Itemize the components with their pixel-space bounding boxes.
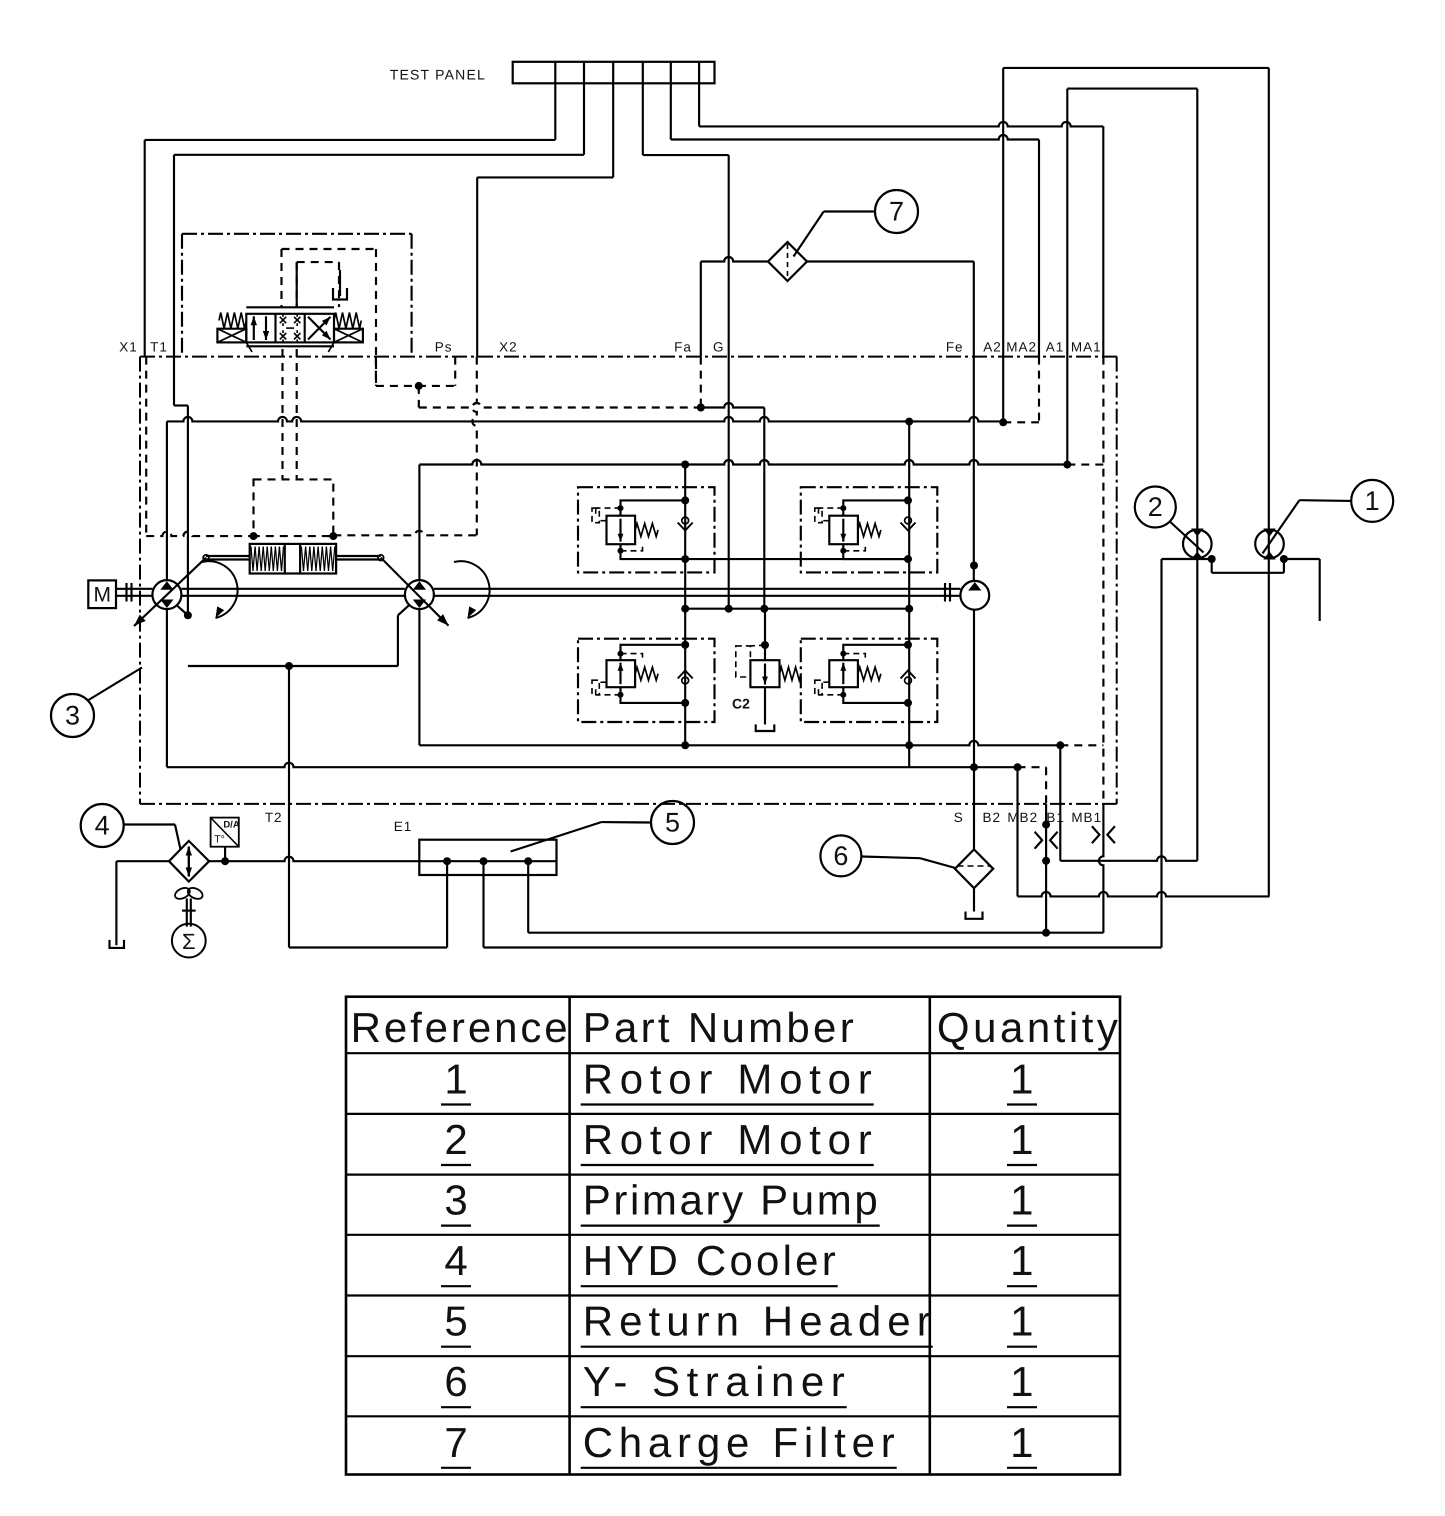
svg-text:B1: B1 (1046, 810, 1065, 825)
svg-text:Ps: Ps (435, 340, 453, 355)
svg-text:Fe: Fe (946, 340, 964, 355)
svg-text:E1: E1 (394, 819, 413, 834)
svg-text:6: 6 (833, 841, 848, 871)
svg-text:4: 4 (95, 811, 110, 841)
svg-text:M: M (93, 584, 111, 607)
svg-text:X2: X2 (499, 340, 518, 355)
svg-text:4: 4 (444, 1237, 467, 1284)
svg-text:HYD Cooler: HYD Cooler (583, 1237, 836, 1284)
svg-text:X1: X1 (119, 340, 138, 355)
svg-text:T2: T2 (265, 810, 283, 825)
svg-text:1: 1 (1010, 1419, 1033, 1466)
svg-text:1: 1 (1010, 1177, 1033, 1224)
svg-text:3: 3 (65, 701, 80, 731)
svg-text:Rotor Motor: Rotor Motor (583, 1056, 872, 1103)
svg-text:Fa: Fa (674, 340, 692, 355)
svg-text:Σ: Σ (182, 929, 196, 954)
svg-text:TEST PANEL: TEST PANEL (390, 67, 486, 83)
svg-text:7: 7 (889, 197, 904, 227)
svg-text:D/A: D/A (223, 820, 240, 831)
svg-text:S: S (954, 810, 964, 825)
svg-text:C2: C2 (732, 696, 750, 712)
svg-text:G: G (713, 340, 725, 355)
svg-text:Reference: Reference (351, 1004, 568, 1051)
svg-text:MB1: MB1 (1071, 810, 1102, 825)
svg-text:Primary Pump: Primary Pump (583, 1177, 878, 1224)
svg-text:6: 6 (444, 1358, 467, 1405)
svg-text:3: 3 (444, 1177, 467, 1224)
svg-text:Rotor Motor: Rotor Motor (583, 1116, 872, 1163)
svg-text:1: 1 (1010, 1358, 1033, 1405)
svg-text:Return Header: Return Header (583, 1298, 931, 1345)
svg-text:A2: A2 (983, 340, 1002, 355)
svg-text:1: 1 (444, 1056, 467, 1103)
svg-text:1: 1 (1010, 1298, 1033, 1345)
svg-text:MA2: MA2 (1006, 340, 1037, 355)
svg-text:T°: T° (214, 834, 225, 846)
svg-text:1: 1 (1365, 486, 1380, 516)
svg-text:A1: A1 (1046, 340, 1065, 355)
svg-text:5: 5 (665, 808, 680, 838)
svg-text:Part Number: Part Number (583, 1004, 854, 1051)
svg-text:Y- Strainer: Y- Strainer (583, 1358, 845, 1405)
svg-text:Quantity: Quantity (937, 1004, 1118, 1051)
svg-text:7: 7 (444, 1419, 467, 1466)
svg-text:MA1: MA1 (1071, 340, 1102, 355)
svg-text:1: 1 (1010, 1056, 1033, 1103)
svg-text:5: 5 (444, 1298, 467, 1345)
svg-text:1: 1 (1010, 1116, 1033, 1163)
svg-text:2: 2 (1148, 492, 1163, 522)
svg-text:2: 2 (444, 1116, 467, 1163)
svg-text:T1: T1 (150, 340, 168, 355)
svg-text:MB2: MB2 (1007, 810, 1038, 825)
svg-text:1: 1 (1010, 1237, 1033, 1284)
svg-text:B2: B2 (982, 810, 1001, 825)
